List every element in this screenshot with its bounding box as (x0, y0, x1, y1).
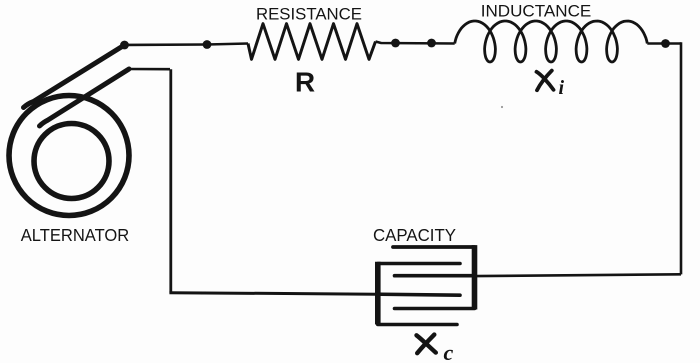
svg-text:ALTERNATOR: ALTERNATOR (21, 225, 130, 245)
svg-text:CAPACITY: CAPACITY (373, 225, 456, 245)
node B junction dot (203, 40, 212, 49)
capacitor C right plate top line (393, 245, 475, 249)
svg-text:INDUCTANCE: INDUCTANCE (481, 3, 592, 21)
svg-text:R: R (295, 67, 315, 98)
capacitor left plate bar (375, 262, 381, 325)
node A junction dot (top alternator lead) (120, 41, 129, 50)
capacitor left plate finger (joins left lead) (377, 294, 460, 295)
scan speck (501, 106, 503, 108)
alternator lead (inner brush) (40, 69, 130, 126)
wire: right corner to capacitor right plate (476, 274, 681, 276)
svg-text:c: c (444, 340, 454, 363)
capacitor right plate bar (472, 245, 478, 309)
resistor R zigzag (248, 24, 376, 60)
wire: inductor to right corner (647, 42, 681, 45)
capacitor right plate finger (middle, joins right lead) (395, 274, 475, 278)
alternator inner turn (34, 124, 109, 199)
alternator outer turn (9, 96, 129, 216)
wire: left vertical (169, 69, 172, 293)
node C junction dot (391, 39, 400, 48)
label Xi (537, 71, 554, 91)
wire: resistor to inductor (376, 42, 455, 44)
node D junction dot (427, 39, 436, 48)
svg-text:RESISTANCE: RESISTANCE (256, 6, 362, 24)
label Xc (417, 335, 436, 354)
node E junction dot (661, 39, 670, 48)
wire: bottom from left corner to capacitor left plate (169, 293, 377, 295)
inductor Xi coil (455, 21, 648, 62)
wire: node A to resistor (125, 44, 249, 46)
svg-text:i: i (559, 77, 565, 99)
capacitor left plate finger (top) (378, 262, 460, 266)
capacitor left plate bottom line (378, 323, 457, 327)
alternator lead (outer brush) (24, 45, 125, 108)
wire: inner alternator lead to left vertical (129, 68, 170, 71)
capacitor right plate finger (lower) (395, 307, 475, 311)
wire: right vertical (680, 42, 683, 274)
